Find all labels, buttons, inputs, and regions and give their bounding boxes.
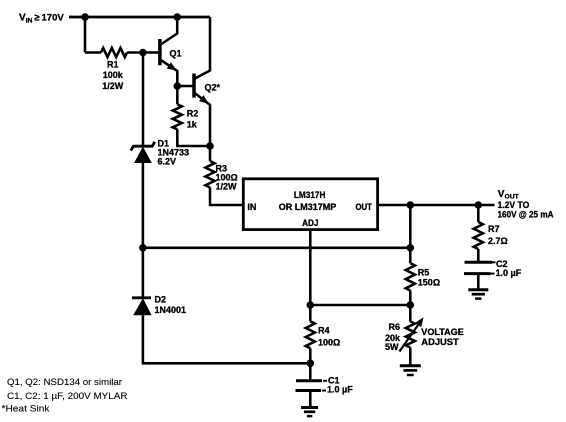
svg-text:1/2W: 1/2W — [102, 81, 124, 91]
wire D2 anode down and right to C1 node — [143, 315, 310, 363]
transistor Q1 — [160, 17, 177, 86]
label R1 100k 1/2W — [102, 60, 124, 91]
wire D2 cathode lead — [142, 248, 145, 298]
svg-text:5W: 5W — [385, 342, 399, 352]
wire Q2 base — [177, 85, 192, 88]
svg-text:Q2*: Q2* — [205, 83, 221, 93]
label R2 1k — [187, 109, 199, 130]
wire R7 top lead — [477, 205, 480, 222]
resistor R4 — [309, 305, 312, 321]
wire OUT node down to mid rail — [409, 205, 412, 248]
wire top rail — [69, 16, 210, 19]
label C1 1.0uF — [327, 375, 353, 394]
svg-text:D2: D2 — [155, 294, 167, 304]
svg-text:*Heat Sink: *Heat Sink — [2, 404, 50, 414]
ground below C1 — [301, 406, 318, 409]
wire R3 top lead — [209, 146, 212, 161]
svg-text:C1, C2: 1 µF, 200V MYLAR: C1, C2: 1 µF, 200V MYLAR — [7, 391, 128, 401]
svg-text:IN: IN — [247, 202, 256, 212]
ground below R6 — [400, 364, 421, 367]
svg-text:R7: R7 — [488, 224, 500, 234]
svg-text:VIN ≥ 170V: VIN ≥ 170V — [19, 13, 64, 25]
svg-text:OUT: OUT — [356, 202, 373, 212]
svg-text:R2: R2 — [187, 109, 199, 119]
svg-text:OR LM317MP: OR LM317MP — [279, 201, 337, 212]
wire D1 cathode lead — [142, 53, 145, 147]
svg-text:VOUT: VOUT — [498, 189, 520, 201]
wire mid rail D1/D2 node to R5 node — [143, 247, 410, 250]
svg-text:2.7Ω: 2.7Ω — [488, 236, 508, 246]
resistor R1 — [101, 48, 127, 57]
label R3 100ohm 1/2W — [216, 164, 238, 192]
label D1 1N4733 6.2V — [158, 138, 190, 166]
label R6 20k 5W — [385, 322, 401, 352]
wire Q1 base — [143, 51, 159, 54]
node VIN junction — [81, 13, 89, 21]
wire R1 right lead — [127, 51, 143, 54]
wire D1 anode down to mid rail — [142, 163, 145, 248]
svg-text:R4: R4 — [318, 325, 330, 335]
wire R3 bottom to IN pin — [210, 188, 243, 206]
wire R2 top lead — [176, 86, 179, 104]
label R7 2.7ohm — [488, 224, 508, 246]
svg-text:1N4001: 1N4001 — [155, 305, 187, 315]
potentiometer R6 — [399, 305, 423, 366]
node Q1 emitter / Q2 base / R2 junction — [174, 82, 182, 90]
node mid rail left junction — [139, 244, 147, 252]
ground below C2 — [468, 288, 488, 291]
diode D2 — [132, 298, 152, 315]
svg-text:1.2V TO: 1.2V TO — [498, 200, 530, 210]
svg-text:LM317H: LM317H — [294, 189, 326, 200]
label D2 1N4001 — [155, 294, 187, 315]
resistor R7 — [474, 222, 483, 249]
wire R5 top lead — [409, 248, 412, 263]
wire ADJ node to R6 node — [310, 304, 410, 307]
resistor R2 — [173, 104, 182, 129]
svg-text:1k: 1k — [187, 119, 198, 129]
svg-text:R1: R1 — [107, 60, 119, 70]
capacitor C2 — [464, 249, 496, 289]
svg-text:6.2V: 6.2V — [158, 157, 177, 167]
op-amp U1 regulator box LM317 — [243, 179, 377, 230]
node OUT / R7 branch — [475, 201, 483, 209]
svg-text:100Ω: 100Ω — [318, 337, 340, 347]
svg-text:150Ω: 150Ω — [418, 277, 440, 287]
wire R2 bottom to R3 node — [177, 129, 210, 146]
svg-text:R5: R5 — [418, 267, 430, 277]
label R4 100ohm — [318, 325, 340, 347]
label R5 150ohm — [418, 267, 440, 287]
wire R1 left lead — [85, 51, 101, 54]
node ADJ / R4 junction — [307, 301, 315, 309]
resistor R3 — [205, 161, 214, 188]
svg-text:160V @ 25 mA: 160V @ 25 mA — [498, 210, 554, 220]
svg-text:Q1, Q2: NSD134 or similar: Q1, Q2: NSD134 or similar — [7, 377, 122, 387]
svg-text:1/2W: 1/2W — [216, 182, 238, 192]
svg-text:ADJUST: ADJUST — [421, 337, 459, 347]
node R4 / C1 / D2 junction — [307, 360, 315, 368]
zener diode D1 — [131, 142, 155, 163]
capacitor C1 — [296, 363, 328, 406]
wire R5 bottom lead — [409, 291, 412, 306]
node R1 / Q1 base / D1 junction — [139, 49, 147, 57]
wire VIN junction down to R1 — [84, 17, 87, 53]
svg-text:ADJ: ADJ — [302, 218, 318, 228]
svg-text:1.0 µF: 1.0 µF — [496, 268, 522, 278]
label LM317H OR LM317MP — [279, 189, 337, 212]
svg-text:100k: 100k — [103, 70, 124, 80]
label C2 1.0uF — [496, 259, 522, 278]
node OUT / R5 branch — [407, 201, 415, 209]
node R2 / Q2 emitter / R3 junction — [206, 142, 214, 150]
node Q1 collector on top rail — [173, 13, 181, 21]
svg-text:Q1: Q1 — [170, 48, 182, 58]
node mid rail right junction — [407, 244, 415, 252]
wire OUT to VOUT — [378, 204, 495, 207]
svg-text:1.0 µF: 1.0 µF — [327, 385, 353, 395]
label VOLTAGE ADJUST — [421, 327, 464, 347]
transistor Q2 — [194, 17, 210, 146]
wire ADJ pin down — [309, 230, 312, 305]
svg-text:VOLTAGE: VOLTAGE — [421, 327, 464, 337]
node R5 / R6 junction — [407, 301, 415, 309]
svg-text:R6: R6 — [388, 322, 400, 332]
resistor R5 — [406, 263, 415, 290]
